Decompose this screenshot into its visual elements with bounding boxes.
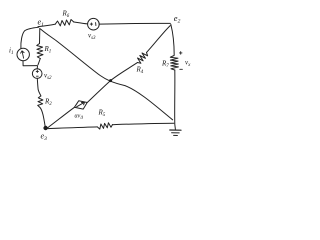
svg-text:vs2: vs2 — [44, 72, 52, 82]
svg-text:R4: R4 — [136, 66, 144, 76]
svg-text:vx: vx — [185, 59, 191, 69]
svg-text:e2: e2 — [174, 13, 181, 25]
svg-text:e1: e1 — [38, 17, 45, 28]
svg-text:R7: R7 — [161, 60, 169, 70]
svg-text:vs3: vs3 — [88, 32, 96, 42]
svg-text:R2: R2 — [44, 98, 52, 108]
svg-text:i1: i1 — [9, 47, 13, 57]
svg-text:R5: R5 — [98, 109, 106, 119]
svg-text:e3: e3 — [41, 132, 48, 143]
svg-text:αvΔ: αvΔ — [75, 114, 84, 120]
svg-text:R1: R1 — [44, 45, 52, 55]
svg-text:R6: R6 — [62, 10, 70, 20]
